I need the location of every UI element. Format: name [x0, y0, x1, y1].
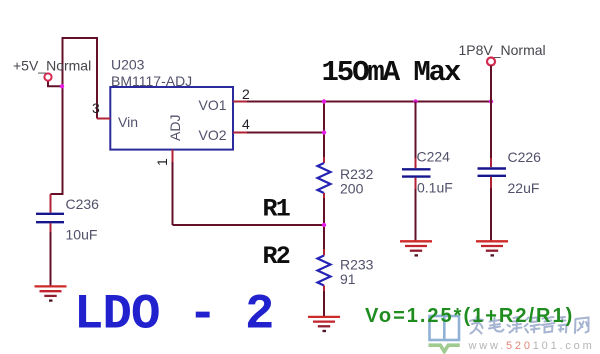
pin 1 stub — [172, 150, 174, 163]
capacitor C226 bottom stub — [490, 177, 492, 189]
op-amp regulator U203 box — [110, 87, 233, 150]
wire C224 to ground — [415, 189, 417, 241]
svg-text:15OmA Max: 15OmA Max — [322, 56, 461, 89]
svg-text:22uF: 22uF — [508, 180, 540, 196]
svg-text:VO1: VO1 — [199, 97, 227, 113]
junction at +5V port — [60, 84, 64, 88]
svg-text:Vo=1.25*(1+R2/R1): Vo=1.25*(1+R2/R1) — [365, 305, 574, 327]
capacitor C224 plates — [402, 169, 431, 176]
wire ADJ horizontal to tap — [173, 224, 325, 226]
wire C224 branch vertical — [415, 102, 417, 160]
wire R232 to tap — [323, 198, 325, 250]
resistor R233 zigzag — [318, 256, 331, 286]
svg-text:10uF: 10uF — [66, 227, 98, 243]
resistor R233 top stub — [323, 249, 325, 256]
svg-text:C224: C224 — [417, 149, 451, 165]
svg-text:1P8V_Normal: 1P8V_Normal — [459, 42, 546, 58]
svg-text:2: 2 — [242, 86, 250, 102]
ground below C224 — [400, 241, 432, 255]
svg-text:www.520101.com: www.520101.com — [468, 340, 595, 352]
svg-text:0.1uF: 0.1uF — [417, 180, 453, 196]
watermark chinese characters — [470, 317, 589, 334]
svg-text:C226: C226 — [508, 149, 542, 165]
ground below R233 — [308, 317, 340, 331]
pin 4 stub — [233, 132, 248, 134]
junction C224 branch — [413, 99, 417, 103]
pin 2 stub — [233, 101, 248, 103]
junction VO1/divider — [322, 99, 326, 103]
wire ADJ vertical — [172, 162, 174, 225]
wire C236 to ground — [50, 232, 52, 286]
svg-text:VO2: VO2 — [199, 127, 227, 143]
svg-text:BM1117-ADJ: BM1117-ADJ — [111, 73, 192, 89]
wire R233 to ground — [323, 291, 325, 317]
port symbol +5V_Normal — [44, 73, 51, 80]
wire VO2 to divider — [247, 132, 324, 134]
capacitor C224 top stub — [415, 158, 417, 168]
ground below C226 — [476, 241, 508, 255]
capacitor C236 plates — [36, 214, 64, 222]
wire net +5V right vertical to pin 3 — [96, 37, 98, 119]
ground below C236 — [35, 286, 67, 300]
svg-text:200: 200 — [340, 181, 364, 197]
resistor R232 top stub — [323, 157, 325, 163]
wire net +5V left vertical down to C236 jog — [51, 37, 63, 194]
resistor R232 zigzag — [318, 163, 331, 193]
capacitor C236 bottom stub — [50, 223, 52, 233]
svg-text:Vin: Vin — [118, 114, 138, 130]
svg-text:4: 4 — [242, 116, 250, 132]
pin 3 stub — [97, 118, 110, 120]
svg-text:+5V_Normal: +5V_Normal — [13, 58, 91, 74]
resistor R233 bottom stub — [323, 286, 325, 293]
svg-text:C236: C236 — [66, 196, 100, 212]
wire C226 branch vertical — [490, 102, 492, 160]
watermark book logo — [429, 316, 460, 352]
svg-text:ADJ: ADJ — [167, 115, 183, 141]
svg-text:R1: R1 — [263, 195, 290, 224]
svg-text:91: 91 — [340, 271, 356, 287]
capacitor C226 plates — [478, 169, 507, 176]
port symbol 1P8V_Normal — [487, 58, 495, 66]
svg-text:U203: U203 — [111, 57, 145, 73]
svg-text:R2: R2 — [263, 242, 290, 271]
capacitor C236 top stub — [50, 194, 52, 213]
resistor R232 bottom stub — [323, 193, 325, 199]
wire divider vertical top — [323, 102, 325, 159]
svg-text:1: 1 — [154, 158, 170, 166]
wire C226 to ground — [490, 188, 492, 241]
capacitor C226 top stub — [490, 158, 492, 167]
svg-text:LDO - 2: LDO - 2 — [74, 287, 274, 343]
wire VO1 bus — [247, 101, 491, 103]
wire net +5V top loop horizontal — [63, 37, 98, 39]
capacitor C224 bottom stub — [415, 178, 417, 190]
junction VO2/divider — [322, 130, 326, 134]
wire port +5V to junction — [48, 80, 63, 86]
junction divider tap — [322, 223, 326, 227]
junction 1P8V port — [489, 99, 493, 103]
svg-text:3: 3 — [92, 100, 100, 116]
wire port 1P8V down to bus — [490, 66, 492, 102]
